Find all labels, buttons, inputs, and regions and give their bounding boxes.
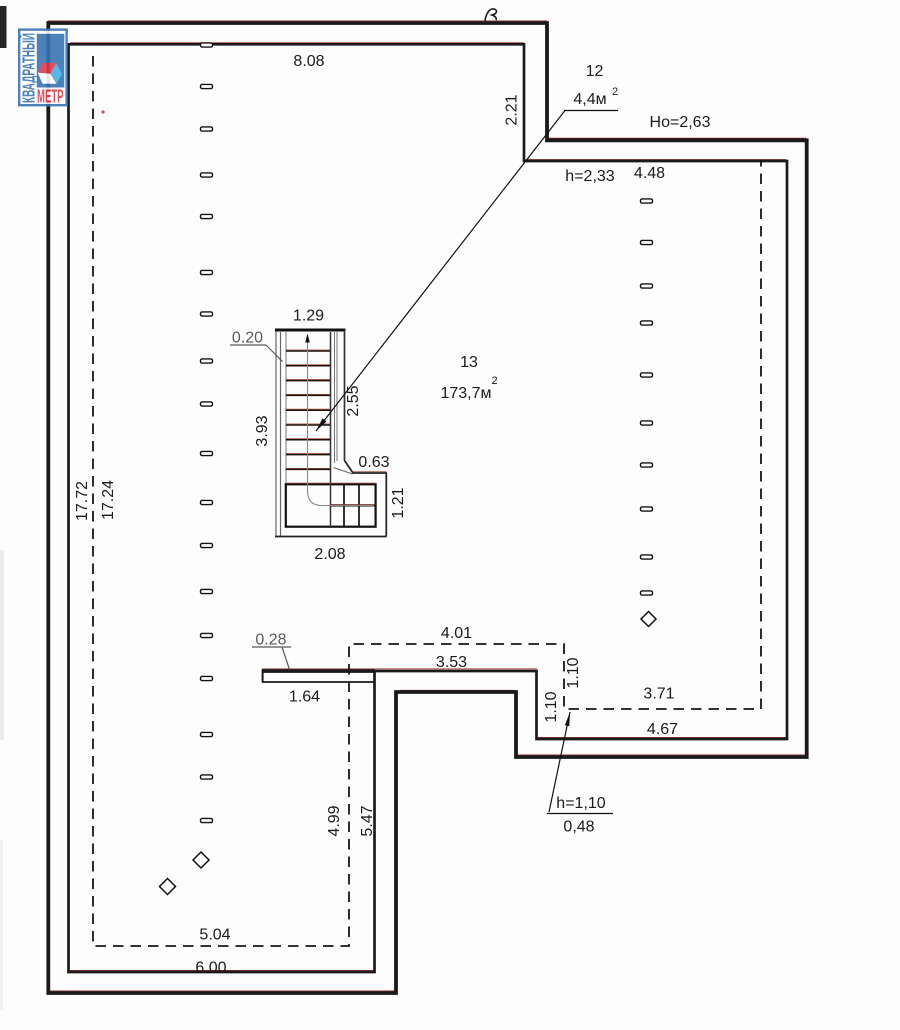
svg-text:8.08: 8.08 xyxy=(293,53,324,70)
svg-text:Ho=2,63: Ho=2,63 xyxy=(650,114,711,131)
svg-text:3.93: 3.93 xyxy=(254,415,271,446)
svg-text:4,4м: 4,4м xyxy=(573,91,606,108)
svg-text:3.71: 3.71 xyxy=(643,686,674,703)
svg-text:3.53: 3.53 xyxy=(436,654,467,671)
svg-text:4.48: 4.48 xyxy=(634,165,665,182)
svg-text:17.72: 17.72 xyxy=(74,481,91,521)
svg-text:1.64: 1.64 xyxy=(289,689,320,706)
svg-text:13: 13 xyxy=(460,354,478,371)
svg-text:0.20: 0.20 xyxy=(232,330,263,347)
svg-text:h=1,10: h=1,10 xyxy=(556,795,605,812)
svg-text:2: 2 xyxy=(612,86,618,98)
svg-text:2: 2 xyxy=(491,375,497,387)
svg-text:17.24: 17.24 xyxy=(100,480,117,520)
svg-text:5.47: 5.47 xyxy=(359,805,376,836)
svg-text:МЕТР: МЕТР xyxy=(37,87,64,107)
svg-text:2.55: 2.55 xyxy=(345,385,362,416)
svg-text:1.10: 1.10 xyxy=(543,691,560,722)
svg-text:4.01: 4.01 xyxy=(441,625,472,642)
svg-text:1.10: 1.10 xyxy=(565,657,582,688)
svg-text:173,7м: 173,7м xyxy=(440,385,491,402)
svg-text:4.67: 4.67 xyxy=(647,721,678,738)
svg-text:1.29: 1.29 xyxy=(293,308,324,325)
svg-text:4.99: 4.99 xyxy=(326,805,343,836)
svg-text:5.04: 5.04 xyxy=(199,927,230,944)
svg-text:0,48: 0,48 xyxy=(563,819,594,836)
svg-text:1.21: 1.21 xyxy=(390,487,407,518)
svg-text:0.63: 0.63 xyxy=(358,454,389,471)
svg-text:0.28: 0.28 xyxy=(255,632,286,649)
svg-text:12: 12 xyxy=(586,63,604,80)
svg-text:2.21: 2.21 xyxy=(504,94,521,125)
svg-text:КВАДРАТНЫЙ: КВАДРАТНЫЙ xyxy=(18,33,39,103)
svg-text:h=2,33: h=2,33 xyxy=(565,168,614,185)
svg-text:6.00: 6.00 xyxy=(195,960,226,977)
svg-text:2.08: 2.08 xyxy=(314,546,345,563)
